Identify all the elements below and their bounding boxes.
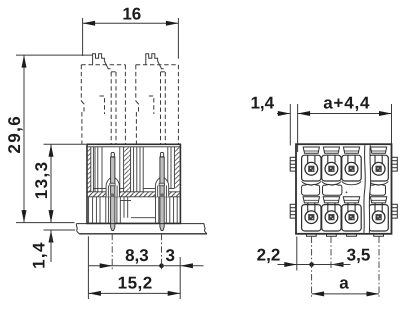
right wall hatch: [174, 147, 180, 189]
dimension 13,3 : dimension line: [50, 144, 52, 222]
mating plug 1 dashed outline: [81, 65, 125, 144]
pin 2 (solder pin): [159, 152, 164, 230]
middle wall hatch: [124, 147, 131, 192]
left tab upper: [290, 157, 296, 171]
dimension 13,3 : top extension line: [44, 143, 87, 145]
dimension 16 : left arrowhead: [83, 21, 96, 26]
PCB left break edge: [76, 224, 79, 234]
col1 bottom tab bump: [306, 233, 316, 236]
right figure body outline: [296, 144, 392, 234]
dimension 13,3 : top arrowhead: [49, 144, 54, 157]
svg-text:16: 16: [122, 5, 141, 24]
col1 top tab: [303, 147, 319, 153]
dimension 1,4 : lower extension line: [44, 229, 76, 231]
middle window under col4: [370, 184, 386, 195]
shared dot at centerline 1: [309, 262, 314, 267]
small dot under col3: [346, 191, 348, 193]
svg-text:a+4,4: a+4,4: [323, 94, 370, 113]
left tab lower: [290, 204, 296, 218]
dimension 29,6 : bottom arrowhead: [22, 210, 27, 223]
col1 top cell: [302, 155, 321, 181]
dimension 1,4 (right fig) : tail + arrowhead: [277, 104, 392, 152]
body interior vertical lines chamber 2: [133, 147, 135, 192]
col1 bottom neck: [308, 203, 315, 212]
dimension a+4,4 : right extension line: [391, 104, 393, 149]
contact column 3 (copy of col1): [342, 147, 361, 236]
svg-text:2,2: 2,2: [257, 246, 281, 265]
floor band edges: [87, 191, 180, 193]
pin centerlines below PCB: [112, 234, 161, 271]
dimension 3 : line + outside arrowhead pointing left at body edge: [162, 265, 204, 267]
svg-text:13,3: 13,3: [32, 161, 51, 200]
contact column 4 (copy of col1): [369, 147, 388, 236]
contact column 2 (copy of col1): [322, 147, 341, 236]
dimension 15,2 : right arrowhead: [168, 291, 181, 296]
svg-text:3,5: 3,5: [347, 246, 371, 265]
pin 2 funnel: [155, 178, 168, 197]
col1 top neck: [308, 155, 315, 164]
dimension 8,3 : arrowhead (outside, pointing right at pin1 centerline): [100, 263, 113, 268]
right tab upper: [392, 157, 398, 171]
svg-text:15,2: 15,2: [118, 274, 153, 293]
dimension 13,3 : bottom arrowhead: [49, 210, 54, 223]
col1 wavy strip below top cell: [302, 181, 321, 184]
dimension 16 : left extension line: [82, 18, 84, 56]
pin 1 funnel: [106, 178, 119, 197]
cavity floor surface lines: [93, 188, 174, 190]
dimension 8,3 : tail + line: [89, 265, 162, 267]
svg-text:29,6: 29,6: [5, 115, 24, 154]
dimension 15,2 : left arrowhead: [88, 291, 101, 296]
contact columns: [302, 147, 389, 236]
dimension 15,2 / 3 : right extension line: [179, 257, 181, 299]
right figure side tabs: [290, 157, 397, 218]
PCB right break edge: [204, 224, 207, 234]
dimension 15,2 : dimension line: [88, 292, 180, 294]
dimension 15,2 : left extension line: [87, 236, 89, 299]
body top rim inner line: [87, 146, 180, 148]
col1 bottom funnel tray: [303, 197, 319, 203]
dimension 8,3/3 shared dot at pin2 centerline: [159, 263, 164, 268]
dimension 1,4 : extension lines: [289, 104, 291, 146]
body left edge extension below: [296, 237, 298, 271]
svg-text:a: a: [339, 273, 349, 292]
mating plug 2 dashed outline: [136, 65, 179, 144]
dimension 16 : right arrowhead: [166, 21, 179, 26]
svg-text:8,3: 8,3: [125, 246, 149, 265]
col1 top circle contact: [305, 162, 318, 175]
centerline extensions below right figure: [312, 237, 379, 300]
header body outline: [87, 144, 180, 223]
plug 1 inner contact dashed lines: [110, 72, 112, 144]
pin 1 (solder pin): [110, 152, 115, 230]
legs below floor: [89, 197, 178, 224]
body interior vertical lines chamber 1: [87, 147, 180, 197]
dimension 29,6 : dimension line: [23, 55, 25, 223]
plug 2 latch (solid): [146, 54, 164, 69]
dimension 16 : right extension line: [177, 18, 179, 59]
dimension 29,6 : top arrowhead: [22, 55, 27, 68]
svg-text:1,4: 1,4: [30, 241, 49, 269]
right tab lower: [392, 204, 398, 218]
dimension 3,5 : outside arrow + tail: [331, 262, 344, 267]
bottom dimension lines (right fig): [278, 237, 380, 297]
cavity floor hatched band: [87, 192, 180, 197]
middle window under col2: [323, 184, 342, 195]
plug 1 latch (solid): [93, 54, 111, 69]
dimension a+4,4 : dimension line: [298, 113, 392, 115]
svg-text:1,4: 1,4: [250, 94, 274, 113]
svg-text:3: 3: [165, 246, 174, 265]
step line between legs: [131, 217, 156, 219]
dimension 29,6 : bottom extension line (seating plane): [16, 222, 75, 224]
PCB bar: [76, 224, 207, 234]
break lines (wavy) in right figure: [364, 145, 371, 233]
col1 bottom circle contact: [305, 211, 318, 224]
dimension a : line + arrows: [312, 293, 379, 295]
dimension 16 : dimension line: [83, 22, 179, 24]
col1 bottom cell: [302, 205, 321, 231]
middle window under col1: [302, 184, 320, 195]
left wall hatch: [87, 147, 91, 192]
dimension 1,4 : arrowhead pointing up + tail: [49, 230, 54, 243]
dimension 2,2 : tail + outside arrow: [278, 264, 332, 266]
dimension 29,6 : top extension line: [16, 54, 93, 56]
plug 2 inner contact dashed lines: [160, 72, 162, 144]
